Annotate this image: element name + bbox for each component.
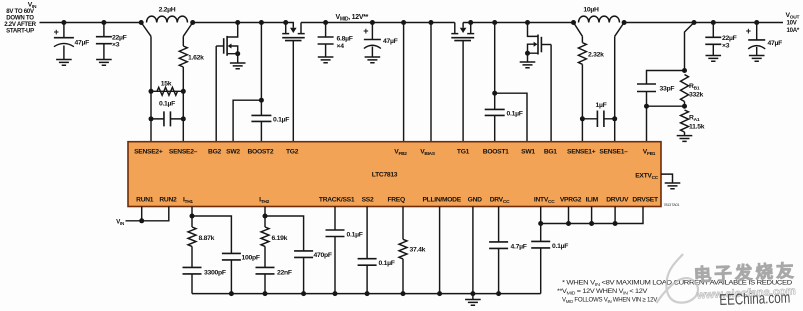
svg-text:6.8µF: 6.8µF xyxy=(337,36,353,43)
resistor 37.4k xyxy=(399,207,426,294)
wire BG1 source to ground xyxy=(527,53,529,62)
capacitor 22nF xyxy=(256,246,292,293)
wire SW2 node rail xyxy=(193,22,286,24)
wire bottom signal-ground bus xyxy=(192,293,541,295)
capacitor 470pF xyxy=(265,216,332,294)
capacitor 47uF input (polarized) xyxy=(54,23,90,60)
svg-text:10µH: 10µH xyxy=(583,7,599,14)
resistor 15k xyxy=(151,81,183,96)
node VOUT junction (47uF) xyxy=(754,20,759,25)
wire BG2 gate to pin xyxy=(215,46,217,142)
capacitor 47uF output (polarized) xyxy=(746,23,782,56)
junction BG1 source-body xyxy=(525,51,530,56)
node VMID junction (6.8uF) xyxy=(323,20,328,25)
resistor RB1 332k xyxy=(681,75,704,107)
svg-text:SENSE2–: SENSE2– xyxy=(169,149,198,156)
svg-text:1.62k: 1.62k xyxy=(188,55,204,62)
wire ITH1 pin down xyxy=(191,207,193,228)
junction 0.1uF left xyxy=(149,116,154,121)
junction feedback top node xyxy=(682,68,687,73)
junction ILIM xyxy=(589,221,594,226)
ground (output 47uF) xyxy=(749,56,765,62)
wire VIN rail (top left) xyxy=(40,22,142,24)
svg-text:332k: 332k xyxy=(689,92,704,99)
capacitor 47uF (VMID, polarized) xyxy=(363,23,397,58)
capacitor 4.7uF (DRVCC) xyxy=(489,207,527,294)
node TG1 source junction xyxy=(468,20,473,25)
svg-text:8.87k: 8.87k xyxy=(199,235,215,242)
node inductor L1 left terminal xyxy=(571,20,576,25)
resistor RA1 11.5k xyxy=(681,110,705,136)
svg-text:SW1: SW1 xyxy=(521,149,535,156)
svg-text:RUN2: RUN2 xyxy=(159,197,177,204)
junction 0.1uF right xyxy=(181,116,186,121)
svg-text:33pF: 33pF xyxy=(660,86,675,93)
junction ITH2 at bus xyxy=(263,291,268,296)
watermark swirl xyxy=(657,254,699,303)
junction BG2 source-body xyxy=(235,51,240,56)
svg-text:6.19k: 6.19k xyxy=(272,235,288,242)
labels U1 top pins xyxy=(134,149,656,158)
ground (BG2 source) xyxy=(230,63,246,69)
node SW2-side inductor terminal xyxy=(139,20,144,25)
node SW1 junction (BOOST1) xyxy=(492,20,497,25)
wire SENSE1- line xyxy=(614,36,616,141)
capacitor 3300pF xyxy=(183,246,226,293)
capacitor 1uF (sense1) xyxy=(582,102,614,127)
svg-text:0.1µF: 0.1µF xyxy=(159,101,175,108)
svg-text:BG1: BG1 xyxy=(544,149,557,156)
svg-text:10V: 10V xyxy=(787,20,798,27)
svg-text:SENSE1+: SENSE1+ xyxy=(567,149,596,156)
transistor M3 (TG2 top FET) xyxy=(282,23,305,142)
junction DRVCC at bus xyxy=(496,291,501,296)
svg-text:DRVSET: DRVSET xyxy=(632,197,659,204)
capacitor 6.8uF x4 (VMID) xyxy=(318,23,353,58)
ground (RA1) xyxy=(677,136,693,142)
wire BG1 gate to pin xyxy=(550,45,552,142)
node SW1 junction (BG1 drain) xyxy=(525,20,530,25)
label VOUT xyxy=(786,12,800,34)
svg-text:START-UP: START-UP xyxy=(6,28,34,35)
svg-text:SENSE1–: SENSE1– xyxy=(599,149,628,156)
svg-text:SENSE2+: SENSE2+ xyxy=(134,149,163,156)
wire BG2 source to ground xyxy=(237,54,239,63)
wire mid node xyxy=(647,105,685,107)
capacitor 0.1uF (BOOST2) xyxy=(251,100,289,142)
svg-text:22µF: 22µF xyxy=(722,35,737,42)
resistor 1.62k xyxy=(179,36,204,141)
svg-text:SW2: SW2 xyxy=(226,149,240,156)
resistor 8.87k xyxy=(188,227,215,246)
svg-text:TG2: TG2 xyxy=(286,149,299,156)
svg-text:11.5k: 11.5k xyxy=(689,124,705,131)
ground (output 22uF) xyxy=(706,56,722,62)
wire VPRG2 down xyxy=(568,207,570,224)
svg-text:2.32k: 2.32k xyxy=(588,52,604,59)
wire ITH2 pin down xyxy=(264,207,266,228)
wire VFB1 to divider xyxy=(646,106,648,142)
wire SW2 pin connection xyxy=(233,100,261,142)
capacitor 33pF xyxy=(637,84,674,106)
junction PLLIN at bus xyxy=(437,291,442,296)
ground (BG1 source) xyxy=(520,62,536,68)
ground (input 22uF) xyxy=(96,60,112,66)
transistor M4 (BG2 bottom FET) xyxy=(216,23,238,56)
svg-text:47µF: 47µF xyxy=(768,40,783,47)
inductor 2.2uH xyxy=(141,7,193,37)
junction 15k right xyxy=(181,89,186,94)
capacitor 100pF xyxy=(192,216,260,294)
node TG2 source junction xyxy=(283,20,288,25)
wire SENSE2+ line xyxy=(150,36,152,141)
svg-text:0.1µF: 0.1µF xyxy=(273,117,289,124)
svg-text:0.1µF: 0.1µF xyxy=(379,260,395,267)
svg-text:+: + xyxy=(54,27,59,37)
capacitor 0.1uF (INTVCC) xyxy=(531,241,568,293)
wire INTVCC pin down xyxy=(540,207,542,242)
wire RUN1/RUN2 to VIN xyxy=(126,207,169,221)
junction feedback mid node xyxy=(682,104,687,109)
svg-text:BOOST2: BOOST2 xyxy=(247,149,273,156)
svg-text:VPRG2: VPRG2 xyxy=(560,197,582,204)
svg-text:GND: GND xyxy=(468,197,482,204)
ground (input 47uF) xyxy=(56,60,72,66)
svg-text:37.4k: 37.4k xyxy=(410,247,426,254)
svg-text:LTC7813: LTC7813 xyxy=(372,172,398,179)
svg-text:×3: ×3 xyxy=(112,42,120,49)
svg-text:DRVUV: DRVUV xyxy=(606,197,629,204)
junction SW2/boost cap xyxy=(259,98,264,103)
ground (6.8uF VMID) xyxy=(318,57,334,63)
junction TRACK at bus xyxy=(333,291,338,296)
wire EXTVCC to ground xyxy=(661,174,673,183)
svg-text:3300pF: 3300pF xyxy=(204,270,226,277)
wire feedback tap xyxy=(685,23,695,71)
inductor 10µH xyxy=(574,7,625,37)
node VIN junction (input 22uF) xyxy=(101,20,106,25)
junction SS2 at bus xyxy=(365,291,370,296)
junction 33pF bottom xyxy=(644,104,649,109)
wire SW2 node down xyxy=(260,23,262,101)
ground (47uF VMID) xyxy=(365,57,381,63)
node VMID junction (VBIAS) xyxy=(429,20,434,25)
capacitor 0.1uF (TRACK/SS1) xyxy=(326,207,363,294)
capacitor 0.1uF (BOOST1) xyxy=(485,93,523,142)
resistor 2.32k xyxy=(578,36,604,141)
svg-text:47µF: 47µF xyxy=(383,38,398,45)
wire top node to 33pF xyxy=(647,71,685,85)
node BG2 drain at rail xyxy=(235,20,240,25)
junction FREQ at bus xyxy=(401,291,406,296)
svg-text:15k: 15k xyxy=(161,81,172,88)
wire VFB2 to VMID xyxy=(403,23,405,142)
svg-text:22nF: 22nF xyxy=(277,270,292,277)
junction 100pF at bus xyxy=(229,291,234,296)
svg-text:2.2µH: 2.2µH xyxy=(159,7,176,14)
wire DRVUV down xyxy=(614,207,616,224)
svg-text:TG1: TG1 xyxy=(457,149,470,156)
junction ITH1 node xyxy=(190,214,195,219)
svg-text:BG2: BG2 xyxy=(208,149,221,156)
node VOUT junction (feedback) xyxy=(692,20,697,25)
junction 1uF left xyxy=(580,116,585,121)
svg-text:EEChina.com: EEChina.com xyxy=(719,290,791,309)
node SW2 rail tap xyxy=(259,20,264,25)
transistor M2 (BG1 bottom FET) xyxy=(528,23,552,55)
svg-text:SS2: SS2 xyxy=(362,197,374,204)
junction ITH2 node xyxy=(263,214,268,219)
wire SW1 pin connection xyxy=(495,93,527,142)
svg-text:FREQ: FREQ xyxy=(387,197,405,204)
svg-text:ILIM: ILIM xyxy=(586,197,599,204)
capacitor 0.1uF (SS2) xyxy=(358,207,395,294)
node VMID junction (VFB2) xyxy=(401,20,406,25)
label VIN source xyxy=(4,2,37,35)
svg-text:×4: ×4 xyxy=(337,43,345,50)
svg-text:10A*: 10A* xyxy=(787,27,800,34)
svg-text:22µF: 22µF xyxy=(112,35,127,42)
labels U1 bottom pins xyxy=(136,197,659,206)
svg-text:0.1µF: 0.1µF xyxy=(347,232,363,239)
wire INTVCC strap to DRVSET xyxy=(541,207,643,224)
junction 15k left xyxy=(149,89,154,94)
junction SW1/boost cap xyxy=(492,91,497,96)
junction INTVCC node xyxy=(538,221,543,226)
wire VOUT rail xyxy=(624,22,783,24)
svg-text:TRACK/SS1: TRACK/SS1 xyxy=(319,197,355,204)
node VIN junction (input 47uF) xyxy=(61,20,66,25)
wire GND pin to ground xyxy=(472,207,474,300)
junction DRVUV xyxy=(613,221,618,226)
svg-text:1µF: 1µF xyxy=(595,102,606,109)
svg-text:0.1µF: 0.1µF xyxy=(507,111,523,118)
op-amp U1 LTC7813 controller body xyxy=(128,142,661,207)
svg-text:4.7µF: 4.7µF xyxy=(511,244,527,251)
wire PLLIN/MODE to bus xyxy=(439,207,441,294)
junction 470pF at bus xyxy=(301,291,306,296)
node VMID junction (47uF) xyxy=(370,20,375,25)
junction GND at bus xyxy=(470,291,475,296)
svg-text:7813 TA01: 7813 TA01 xyxy=(664,203,680,207)
wire VBIAS to VMID xyxy=(430,23,432,142)
wire ILIM down xyxy=(591,207,593,224)
svg-text:47µF: 47µF xyxy=(75,40,90,47)
wire SW1 node rail xyxy=(471,22,574,24)
junction VPRG2 xyxy=(566,221,571,226)
svg-text:0.1µF: 0.1µF xyxy=(552,243,568,250)
node VOUT junction (22uF) xyxy=(711,20,716,25)
svg-text:470pF: 470pF xyxy=(314,252,332,259)
svg-text:+: + xyxy=(363,26,368,36)
svg-text:+: + xyxy=(746,26,751,36)
capacitor 22uF x3 input xyxy=(96,23,127,60)
ground (GND pin) xyxy=(465,300,481,306)
junction 1uF right xyxy=(612,116,617,121)
ground (EXTVCC) xyxy=(665,183,681,189)
capacitor 0.1uF (sense2 filter) xyxy=(151,101,183,127)
resistor 6.19k xyxy=(261,227,288,246)
transistor M1 (TG1 top FET) xyxy=(451,23,474,142)
svg-text:100pF: 100pF xyxy=(242,255,260,262)
svg-text:PLLIN/MODE: PLLIN/MODE xyxy=(422,197,461,204)
svg-text:BOOST1: BOOST1 xyxy=(483,149,509,156)
svg-text:×3: ×3 xyxy=(722,43,730,50)
node inductor L1 right terminal xyxy=(622,20,627,25)
wire BOOST1 node down xyxy=(494,23,496,94)
junction RUN1 xyxy=(139,218,144,223)
node VIN-side... SW2 terminal xyxy=(190,20,195,25)
wire VMID rail xyxy=(301,22,455,24)
capacitor 22uF x3 output xyxy=(705,23,736,56)
svg-text:RUN1: RUN1 xyxy=(136,197,154,204)
